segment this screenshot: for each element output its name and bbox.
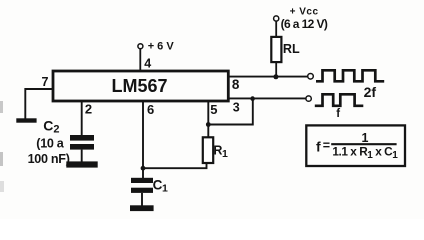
- svg-text:+ Vcc: + Vcc: [290, 7, 319, 18]
- svg-text:1.1 x R1 x C1: 1.1 x R1 x C1: [332, 144, 398, 160]
- svg-text:4: 4: [144, 57, 151, 71]
- svg-text:f: f: [336, 108, 340, 120]
- node junction pin5/R1: [206, 122, 211, 127]
- svg-text:2: 2: [85, 102, 92, 117]
- resistor R1: [203, 137, 213, 163]
- pin 6 wire: [142, 101, 144, 178]
- svg-text:(6 a 12 V): (6 a 12 V): [281, 17, 328, 31]
- svg-text:f: f: [316, 139, 321, 155]
- wire: [81, 150, 83, 162]
- IC U1 LM567 box: [53, 71, 228, 101]
- svg-text:RL: RL: [283, 42, 300, 56]
- pin 3 wire: [228, 97, 306, 99]
- node junction pin6/C1/R1: [141, 166, 146, 171]
- node junction pin3: [250, 96, 255, 101]
- wire RL to pin8 line: [275, 62, 277, 77]
- svg-text:(10 a: (10 a: [36, 136, 65, 150]
- capacitor C2: [70, 135, 94, 141]
- capacitor C1: [131, 178, 153, 183]
- wire: [141, 193, 143, 206]
- svg-text:=: =: [323, 138, 330, 152]
- terminal output f: [306, 96, 311, 101]
- ground (pin 7): [16, 118, 36, 122]
- pin 4 wire: [139, 49, 141, 71]
- formula fraction bar: [331, 143, 396, 145]
- svg-text:5: 5: [210, 102, 217, 117]
- ground (C1): [130, 205, 154, 211]
- waveform 2f: [316, 70, 384, 81]
- svg-text:2f: 2f: [364, 84, 377, 100]
- svg-text:6: 6: [147, 102, 154, 117]
- waveform f: [315, 94, 364, 106]
- svg-text:7: 7: [42, 75, 49, 89]
- formula box: [306, 125, 405, 166]
- node junction pin8/RL: [273, 74, 278, 79]
- terminal output 2f: [308, 74, 314, 80]
- wire Vcc to RL: [275, 21, 277, 37]
- svg-text:100 nF): 100 nF): [28, 152, 70, 166]
- svg-text:1: 1: [362, 131, 369, 145]
- pin 7 wire: [25, 89, 53, 119]
- terminal +Vcc: [274, 16, 279, 21]
- wire pin5 junction to pin3 line: [208, 98, 253, 124]
- ground (C2): [66, 161, 97, 167]
- svg-text:LM567: LM567: [111, 76, 167, 96]
- terminal +6V: [138, 44, 143, 49]
- pin 5 wire: [207, 101, 209, 137]
- pin 8 wire: [228, 76, 307, 78]
- wire junction to R1 bottom: [143, 163, 207, 168]
- svg-text:8: 8: [232, 77, 240, 92]
- svg-text:3: 3: [233, 100, 240, 114]
- resistor RL: [271, 37, 281, 62]
- svg-text:+ 6 V: + 6 V: [148, 40, 175, 52]
- pin 2 wire: [81, 101, 83, 136]
